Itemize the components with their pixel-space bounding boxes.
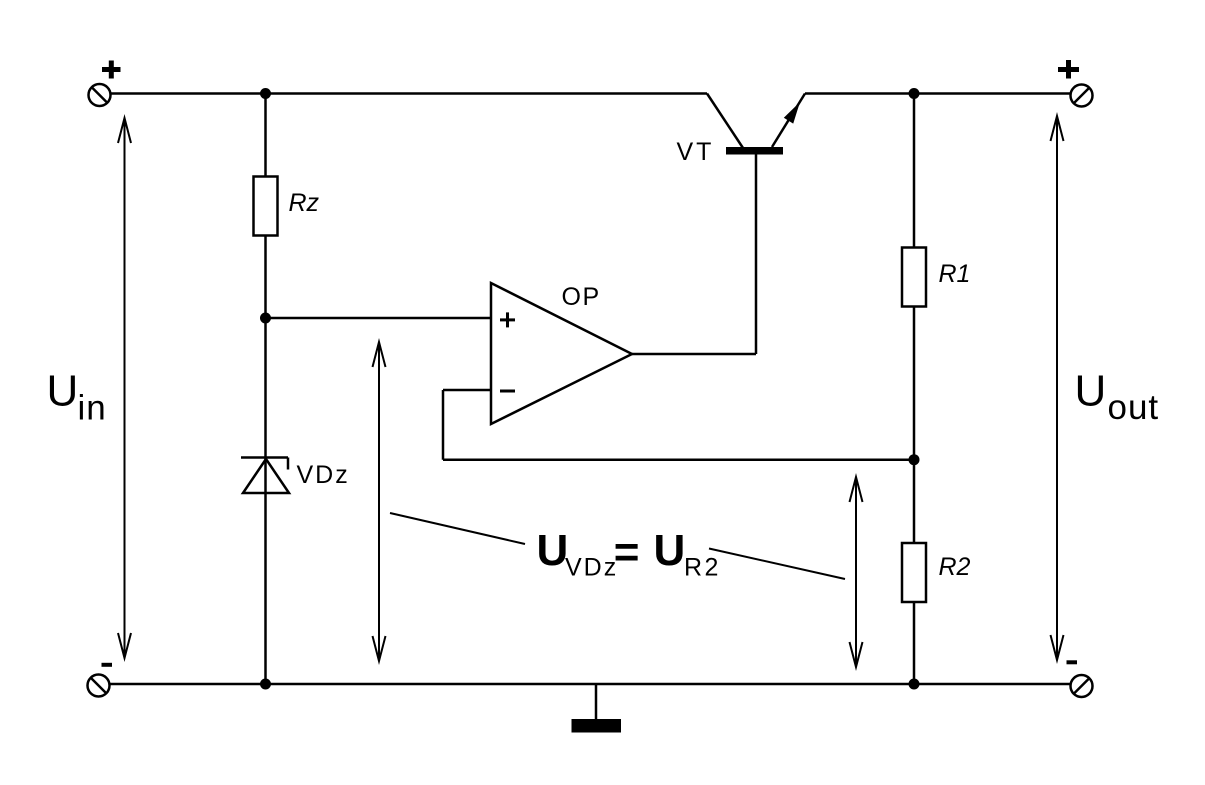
node dot feedback junction	[909, 454, 920, 465]
node dot bottom-left junction	[260, 679, 271, 690]
svg-text:VT: VT	[677, 138, 715, 166]
output terminal top-right	[1071, 85, 1093, 107]
svg-text:R1: R1	[939, 260, 971, 288]
resistor R1	[902, 248, 926, 307]
input terminal bottom-left	[88, 675, 110, 697]
svg-text:Rz: Rz	[289, 189, 320, 217]
wire inverting input	[443, 389, 491, 392]
svg-text:VDz: VDz	[297, 461, 350, 489]
input terminal top-left	[89, 84, 111, 106]
svg-text:U: U	[47, 367, 79, 416]
svg-text:U: U	[537, 526, 569, 575]
resistor Rz	[254, 177, 278, 236]
svg-text:out: out	[1108, 388, 1160, 427]
svg-text:VDz: VDz	[565, 554, 618, 582]
measurement arrow UR2	[850, 477, 863, 667]
node dot top-left junction	[260, 88, 271, 99]
label Uin	[47, 367, 107, 428]
minus sign input	[102, 663, 113, 667]
plus sign output	[1058, 60, 1079, 79]
measurement arrow UVDz	[373, 342, 386, 661]
plus sign input	[102, 61, 121, 79]
wire feedback horizontal	[443, 458, 914, 461]
zener diode VDz	[241, 458, 289, 494]
svg-text:R2: R2	[939, 553, 971, 581]
wire left vertical branch	[264, 94, 267, 685]
wire transistor base lead	[755, 154, 758, 354]
label Uout	[1075, 367, 1160, 428]
leader line right	[709, 549, 845, 580]
svg-text:=: =	[614, 528, 640, 577]
label UVDz = UR2	[537, 526, 721, 582]
wire op-amp output	[632, 353, 756, 356]
resistor R2	[902, 543, 926, 602]
wire bottom rail	[110, 683, 1071, 686]
leader line left	[390, 513, 525, 544]
node dot top-right junction	[909, 88, 920, 99]
minus sign output	[1067, 660, 1078, 664]
output terminal bottom-right	[1071, 675, 1093, 697]
node dot zener/opamp junction	[260, 313, 271, 324]
svg-text:U: U	[654, 526, 686, 575]
svg-text:U: U	[1075, 367, 1107, 416]
svg-text:R2: R2	[684, 554, 721, 582]
wire right vertical branch	[913, 94, 916, 685]
node dot bottom-right junction	[909, 679, 920, 690]
ground	[572, 684, 622, 733]
svg-text:in: in	[78, 389, 107, 428]
wire top rail right segment	[805, 92, 1071, 95]
transistor VT	[707, 94, 805, 155]
wire feedback vertical	[442, 390, 445, 460]
op-amp OP	[491, 283, 632, 424]
svg-text:OP: OP	[562, 283, 601, 311]
wire noninverting input	[266, 317, 492, 320]
wire top rail left segment	[111, 92, 708, 95]
measurement arrow Uin	[118, 118, 131, 658]
measurement arrow Uout	[1051, 116, 1064, 660]
